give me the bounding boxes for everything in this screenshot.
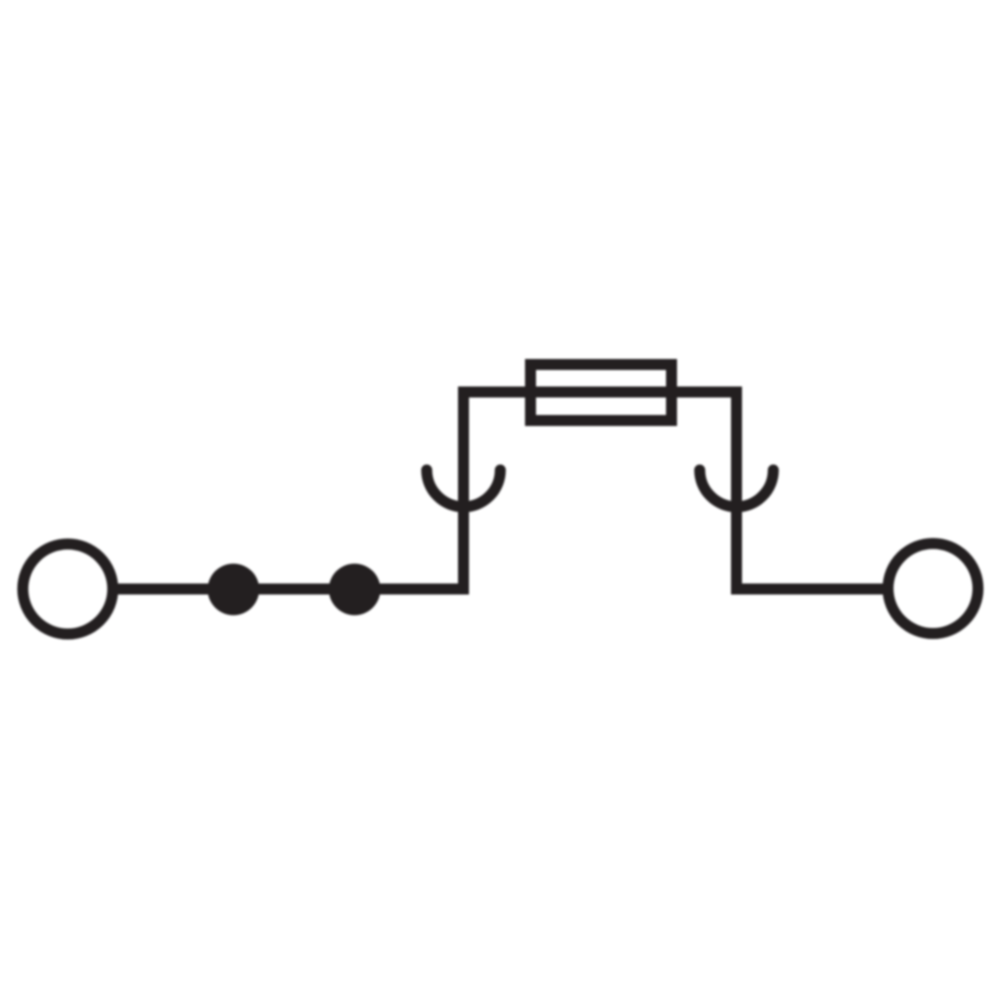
junction dot 1 [208,564,260,616]
fuse F1 (rectangle, wire passes through middle) [531,365,672,421]
terminal circle right [888,544,978,634]
wire main run: bottom-left wire, left riser, top wire, right riser, bottom-right wire [116,392,884,589]
junction dot 2 [329,564,381,616]
terminal circle left [23,544,113,634]
fuse-holder contact left (tulip) [427,470,501,507]
fuse-holder contact right (tulip) [700,470,774,507]
